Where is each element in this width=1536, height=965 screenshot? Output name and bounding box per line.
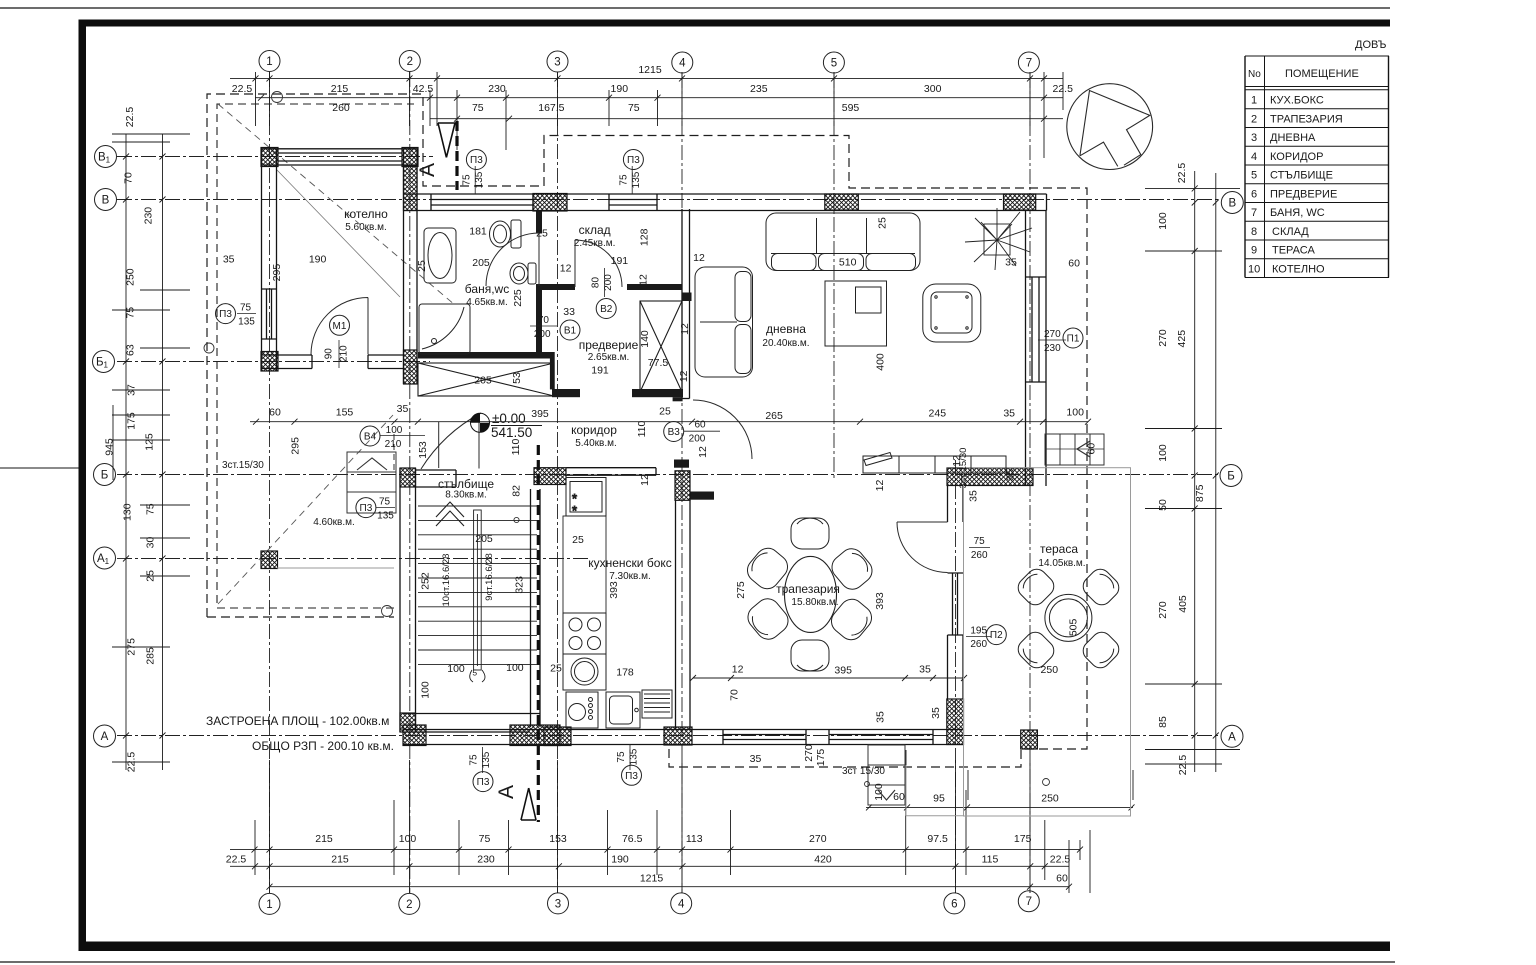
svg-text:60: 60: [694, 420, 706, 431]
wall notch: [673, 397, 683, 401]
svg-text:75: 75: [124, 307, 136, 319]
door M1 boiler room: [311, 298, 368, 355]
living room east window: [1026, 277, 1047, 382]
svg-text:9: 9: [1251, 245, 1257, 257]
svg-text:53: 53: [511, 372, 523, 384]
svg-text:90: 90: [324, 348, 335, 360]
svg-text:ОБЩО РЗП - 200.10 кв.м.: ОБЩО РЗП - 200.10 кв.м.: [252, 739, 394, 753]
svg-text:215: 215: [331, 83, 349, 95]
boiler room bottom wall with M1 opening: [261, 355, 404, 369]
svg-text:395: 395: [834, 665, 852, 677]
svg-text:210: 210: [338, 345, 349, 362]
svg-text:425: 425: [1176, 330, 1188, 348]
svg-text:22.5: 22.5: [124, 107, 136, 128]
svg-text:коридор: коридор: [571, 423, 617, 437]
svg-text:12: 12: [679, 323, 691, 335]
svg-text:ТРАПЕЗАРИЯ: ТРАПЕЗАРИЯ: [1270, 113, 1343, 125]
svg-text:35: 35: [750, 753, 762, 765]
south wall window 1: [723, 730, 806, 745]
svg-text:склад: склад: [579, 223, 611, 237]
svg-text:270: 270: [1157, 329, 1169, 347]
svg-text:35: 35: [1003, 408, 1015, 420]
svg-text:1: 1: [266, 899, 272, 911]
svg-text:270: 270: [803, 744, 815, 762]
svg-text:191: 191: [611, 255, 629, 267]
svg-text:КОРИДОР: КОРИДОР: [1270, 151, 1323, 163]
boiler room left wall: [262, 149, 277, 371]
svg-text:95: 95: [933, 793, 945, 805]
toilet top: [490, 220, 522, 248]
svg-text:22.5: 22.5: [1176, 163, 1188, 184]
svg-text:33: 33: [563, 306, 575, 318]
svg-text:2.45кв.м.: 2.45кв.м.: [574, 238, 616, 249]
svg-text:250: 250: [1041, 664, 1059, 676]
svg-text:кухненски бокс: кухненски бокс: [588, 556, 672, 570]
svg-text:ПОМЕЩЕНИЕ: ПОМЕЩЕНИЕ: [1285, 68, 1359, 80]
svg-text:4: 4: [678, 898, 685, 910]
svg-text:1: 1: [1251, 95, 1257, 107]
south wall faces: [403, 730, 964, 745]
svg-text:5: 5: [831, 58, 837, 70]
left dimension chain: [112, 134, 190, 770]
svg-text:ЗАСТРОЕНА ПЛОЩ - 102.00кв.м: ЗАСТРОЕНА ПЛОЩ - 102.00кв.м: [206, 714, 389, 728]
svg-text:П3: П3: [627, 155, 640, 166]
bath east partition lower: [536, 286, 542, 353]
svg-text:60: 60: [1068, 258, 1080, 270]
svg-text:А: А: [1228, 731, 1236, 743]
living sofa long: [766, 213, 920, 271]
svg-text:205: 205: [474, 375, 492, 387]
svg-text:В: В: [102, 195, 110, 207]
svg-text:12: 12: [693, 252, 705, 264]
svg-text:дневна: дневна: [766, 322, 806, 336]
svg-text:5.60кв.м.: 5.60кв.м.: [345, 222, 387, 233]
door arcs: [311, 233, 948, 573]
svg-text:5.40кв.м.: 5.40кв.м.: [575, 438, 617, 449]
exterior steps S: [868, 745, 905, 805]
svg-text:12: 12: [732, 664, 744, 676]
svg-text:60: 60: [1056, 873, 1068, 885]
svg-text:75: 75: [479, 833, 491, 845]
svg-text:35: 35: [1005, 469, 1017, 481]
svg-text:ТЕРАСА: ТЕРАСА: [1272, 245, 1315, 257]
svg-text:2.65кв.м.: 2.65кв.м.: [588, 352, 630, 363]
svg-text:230: 230: [477, 854, 495, 866]
svg-text:97.5: 97.5: [927, 833, 948, 845]
svg-text:70: 70: [538, 315, 550, 326]
svg-text:А: А: [101, 731, 109, 743]
svg-text:75: 75: [628, 102, 640, 114]
svg-text:В1: В1: [98, 152, 111, 165]
svg-text:420: 420: [814, 854, 832, 866]
svg-text:75: 75: [379, 497, 391, 508]
hall/living wall caps: [682, 398, 690, 400]
svg-text:П3: П3: [360, 503, 373, 514]
hall closet with X: [418, 363, 554, 396]
svg-text:баня,wc: баня,wc: [465, 282, 509, 296]
svg-text:12: 12: [637, 274, 649, 286]
terrace chairs: [1014, 565, 1123, 672]
interior dimension line row (y=421.7): [250, 419, 1091, 474]
kitchen cabinet with circle: [563, 654, 606, 690]
kitchen fridge: [566, 478, 606, 519]
level annotation: [491, 425, 542, 427]
svg-text:153: 153: [417, 441, 429, 459]
svg-text:80: 80: [591, 277, 602, 289]
door storage: [575, 240, 622, 287]
svg-text:76.5: 76.5: [622, 833, 643, 845]
svg-text:252: 252: [420, 572, 432, 590]
svg-text:35: 35: [919, 664, 931, 676]
dining table oval: [785, 556, 837, 632]
svg-text:В4: В4: [364, 432, 377, 443]
svg-text:100: 100: [1157, 212, 1169, 230]
svg-text:БАНЯ, WC: БАНЯ, WC: [1270, 207, 1325, 219]
svg-text:5: 5: [472, 668, 477, 678]
svg-text:875: 875: [1194, 484, 1206, 502]
svg-text:35: 35: [875, 711, 887, 723]
svg-text:35: 35: [967, 490, 979, 502]
axis bubbles: [93, 51, 1244, 915]
left dimension texts (rotated): [104, 107, 157, 773]
svg-text:250: 250: [124, 268, 136, 286]
top dimension chain lines: [230, 72, 1063, 158]
svg-text:275: 275: [735, 581, 747, 599]
plant: [965, 208, 1032, 270]
svg-text:100: 100: [1157, 444, 1169, 462]
small tick left edge: [0, 467, 79, 469]
axis bubble labels: [96, 56, 1236, 911]
svg-text:265: 265: [765, 410, 783, 422]
svg-text:3ст 15/30: 3ст 15/30: [958, 448, 969, 489]
north wall window 2 mid lines: [609, 194, 657, 211]
svg-text:КУХ.БОКС: КУХ.БОКС: [1270, 95, 1324, 107]
svg-text:100: 100: [386, 425, 403, 436]
grid axis centerlines: [117, 72, 1221, 893]
svg-text:15.80кв.м.: 15.80кв.м.: [791, 597, 838, 608]
stair treads: [418, 502, 537, 682]
stair center rail: [474, 510, 482, 670]
svg-text:178: 178: [616, 667, 634, 679]
frame thick left bar: [79, 20, 87, 952]
svg-text:300: 300: [924, 83, 942, 95]
storage/living west wall double line: [682, 209, 690, 399]
svg-text:22.5: 22.5: [232, 83, 253, 95]
bath east partition upper: [536, 211, 542, 234]
svg-text:3: 3: [554, 57, 560, 69]
svg-text:260: 260: [970, 639, 987, 650]
fraction labels: [238, 171, 1061, 768]
svg-text:предверие: предверие: [579, 338, 639, 352]
tv bench: [863, 453, 1006, 474]
svg-text:113: 113: [686, 833, 703, 845]
section cut line A (top): [438, 121, 457, 190]
vestibule west wall lower: [550, 352, 555, 389]
right dimension texts (rotated): [1157, 163, 1206, 776]
svg-text:В: В: [1228, 198, 1236, 210]
svg-text:4.60кв.м.: 4.60кв.м.: [313, 517, 355, 528]
north arrow circle: [1067, 84, 1153, 170]
entry steps west (3 steps): [347, 452, 396, 513]
svg-text:25: 25: [416, 260, 428, 272]
svg-text:100: 100: [1066, 407, 1084, 419]
svg-text:82: 82: [511, 485, 523, 497]
bathtub: [424, 228, 456, 283]
svg-text:8.30кв.м.: 8.30кв.м.: [445, 490, 487, 501]
svg-text:50: 50: [1157, 499, 1169, 511]
svg-text:4: 4: [679, 58, 686, 70]
svg-text:175: 175: [126, 412, 138, 430]
living sofa small: [695, 267, 753, 377]
svg-text:541.50: 541.50: [491, 425, 532, 440]
dish dryer hatch: [642, 690, 672, 718]
frame thick top bar: [79, 20, 1391, 27]
small reference circles on dashed outline: [204, 92, 1050, 787]
svg-text:35: 35: [930, 707, 942, 719]
sheet border thin bottom line: [0, 961, 1395, 963]
svg-text:П3: П3: [470, 155, 483, 166]
svg-text:130: 130: [121, 503, 133, 521]
svg-text:35: 35: [397, 403, 409, 415]
svg-text:505: 505: [1068, 618, 1080, 636]
svg-text:22.5: 22.5: [226, 854, 247, 866]
door hall-dining B3: [693, 400, 752, 459]
svg-text:85: 85: [1157, 716, 1169, 728]
svg-text:А: А: [495, 785, 518, 799]
door dining-terrace: [897, 522, 948, 573]
svg-text:трапезария: трапезария: [776, 582, 840, 596]
south wall window 2: [829, 730, 933, 745]
svg-text:±0.00: ±0.00: [492, 411, 526, 426]
svg-text:945: 945: [104, 438, 116, 456]
stair north wall stub: [416, 470, 457, 487]
svg-text:42.5: 42.5: [413, 83, 434, 95]
svg-text:63: 63: [124, 344, 136, 356]
svg-text:7: 7: [1251, 207, 1257, 219]
room legend table top-right: [1245, 56, 1389, 278]
interior dimension line row (y=678): [690, 675, 967, 681]
svg-text:110: 110: [636, 420, 648, 437]
svg-text:2: 2: [407, 56, 413, 68]
top extension verticals: [256, 72, 1064, 158]
svg-text:115: 115: [982, 854, 999, 866]
svg-text:175: 175: [1014, 833, 1032, 845]
hatched columns: [261, 148, 1037, 750]
top dimension texts: [232, 64, 1073, 114]
svg-text:1: 1: [266, 56, 272, 68]
svg-text:175: 175: [815, 749, 827, 767]
svg-text:10ст.16.6/28: 10ст.16.6/28: [441, 554, 452, 607]
roof diagonal dashed lines: [218, 104, 455, 604]
north wall window (bath) mid lines: [431, 194, 533, 211]
svg-text:25: 25: [572, 534, 584, 546]
svg-text:400: 400: [875, 353, 887, 371]
terrace slab outline: [277, 468, 1131, 816]
svg-text:260: 260: [971, 550, 988, 561]
stair walk line hooks: [470, 670, 485, 682]
stair up arrow: [436, 502, 464, 526]
svg-text:405: 405: [1177, 595, 1189, 613]
kitchen sink: [606, 692, 640, 728]
svg-text:В1: В1: [564, 326, 577, 337]
armchair: [923, 284, 981, 342]
terrace table: [1045, 594, 1092, 641]
fraction divider lines: [237, 166, 1066, 773]
svg-text:5: 5: [1251, 170, 1257, 182]
svg-text:210: 210: [385, 439, 402, 450]
kitchen NE corner stub: [690, 492, 714, 500]
svg-text:9ст.16.6/28: 9ст.16.6/28: [484, 553, 495, 601]
svg-text:П3: П3: [219, 309, 232, 320]
svg-text:1215: 1215: [640, 873, 664, 885]
svg-text:295: 295: [271, 264, 283, 282]
svg-text:295: 295: [290, 437, 302, 455]
section cut line A (bottom): [521, 445, 538, 822]
wall stub at closet top: [682, 293, 692, 302]
level mark +-0.00: [471, 413, 490, 432]
svg-text:В3: В3: [668, 427, 681, 438]
svg-text:3ст 15/30: 3ст 15/30: [842, 766, 885, 777]
svg-text:12: 12: [697, 446, 709, 458]
bottom dimension texts: [226, 793, 1071, 885]
svg-text:275: 275: [126, 638, 138, 656]
svg-text:230: 230: [143, 207, 155, 225]
svg-text:No: No: [1248, 69, 1261, 80]
svg-text:100: 100: [873, 783, 885, 801]
svg-text:60: 60: [893, 791, 905, 803]
svg-text:ДНЕВНА: ДНЕВНА: [1270, 132, 1316, 144]
svg-text:12: 12: [639, 474, 651, 486]
top dim ticks: [253, 75, 1048, 121]
thick partitions (filled): [418, 211, 714, 500]
svg-text:ПРЕДВЕРИЕ: ПРЕДВЕРИЕ: [1270, 188, 1337, 200]
svg-text:8: 8: [1251, 226, 1257, 238]
wall stub below B3 door: [674, 460, 689, 468]
svg-text:22.5: 22.5: [1050, 854, 1071, 866]
svg-text:155: 155: [336, 407, 354, 419]
bottom extension verticals: [255, 750, 1133, 893]
svg-text:Б: Б: [1227, 471, 1235, 483]
svg-text:100: 100: [420, 681, 432, 699]
vestibule south wall east: [632, 389, 683, 397]
svg-text:12: 12: [678, 370, 690, 382]
svg-text:6: 6: [1251, 188, 1257, 200]
storage south wall east part: [627, 284, 682, 290]
svg-text:100: 100: [506, 662, 524, 674]
svg-text:75: 75: [144, 503, 156, 515]
light diagonal in boiler room: [277, 170, 400, 297]
boiler room left wall window: [262, 289, 277, 339]
exterior steps NE: [1045, 434, 1104, 465]
svg-text:30: 30: [144, 537, 156, 549]
bath south wall: [418, 352, 554, 359]
dining east wall segments: [948, 486, 964, 700]
svg-text:22.5: 22.5: [1177, 755, 1189, 776]
svg-text:37: 37: [126, 384, 138, 396]
svg-text:70: 70: [123, 172, 135, 184]
svg-text:135: 135: [377, 511, 394, 522]
kitchen north wall: [567, 468, 657, 476]
coffee table: [825, 281, 887, 346]
svg-text:60: 60: [1086, 443, 1098, 455]
svg-text:190: 190: [611, 854, 629, 866]
svg-text:В2: В2: [600, 304, 613, 315]
entry jamb line: [438, 422, 440, 468]
svg-text:ДОВЪ: ДОВЪ: [1355, 39, 1387, 51]
svg-text:75: 75: [618, 174, 629, 186]
svg-text:285: 285: [144, 647, 156, 665]
svg-text:2: 2: [406, 899, 412, 911]
kitchen counter: [563, 516, 606, 613]
svg-text:12: 12: [874, 480, 886, 492]
svg-text:25: 25: [550, 663, 562, 675]
roof overhang dashed outline (outer): [207, 94, 1087, 767]
svg-text:25: 25: [877, 217, 889, 229]
svg-text:75: 75: [616, 751, 627, 763]
roof overhang dashed outline (inner): [217, 104, 414, 608]
svg-text:1215: 1215: [638, 64, 662, 76]
svg-text:100: 100: [399, 833, 417, 845]
svg-text:75: 75: [461, 174, 472, 186]
svg-text:Б1: Б1: [96, 357, 109, 370]
svg-text:270: 270: [1044, 329, 1061, 340]
bottom dim ticks: [252, 804, 1135, 889]
right dimension chain: [1145, 171, 1240, 772]
svg-text:75: 75: [468, 754, 479, 766]
svg-text:100: 100: [447, 663, 465, 675]
svg-text:П3: П3: [625, 771, 638, 782]
bottom dimension chain lines: [230, 750, 1135, 893]
svg-text:7: 7: [1026, 896, 1032, 908]
vestibule south wall west: [552, 389, 580, 397]
svg-text:14.05кв.м.: 14.05кв.м.: [1038, 558, 1085, 569]
svg-text:595: 595: [842, 102, 860, 114]
svg-text:215: 215: [331, 854, 349, 866]
svg-text:25: 25: [144, 570, 156, 582]
svg-text:4: 4: [1251, 151, 1257, 163]
svg-text:75: 75: [974, 536, 986, 547]
svg-text:125: 125: [144, 433, 156, 451]
svg-text:245: 245: [929, 408, 947, 420]
svg-text:215: 215: [315, 833, 333, 845]
svg-text:25: 25: [659, 406, 671, 418]
svg-text:20.40кв.м.: 20.40кв.м.: [762, 338, 809, 349]
living room east wall: [1026, 211, 1047, 487]
dining chairs: [743, 518, 877, 671]
svg-text:190: 190: [611, 83, 629, 95]
svg-text:140: 140: [639, 330, 651, 348]
svg-text:22.5: 22.5: [1052, 83, 1073, 95]
svg-text:77.5: 77.5: [648, 357, 669, 369]
svg-text:35: 35: [1005, 257, 1017, 269]
svg-text:СТЪЛБИЩЕ: СТЪЛБИЩЕ: [1270, 170, 1333, 182]
svg-text:200: 200: [534, 329, 551, 340]
boiler room top wall: [261, 149, 418, 165]
svg-text:205: 205: [472, 257, 490, 269]
table rows 1-10: [1248, 95, 1343, 276]
svg-text:3ст.15/30: 3ст.15/30: [222, 460, 264, 471]
svg-text:котелно: котелно: [344, 207, 388, 221]
shower tray: [419, 304, 470, 354]
svg-text:323: 323: [514, 576, 526, 594]
svg-text:230: 230: [1044, 343, 1061, 354]
svg-text:7: 7: [1026, 58, 1032, 70]
svg-text:12: 12: [560, 263, 572, 275]
svg-text:181: 181: [469, 226, 487, 238]
svg-text:75: 75: [240, 303, 252, 314]
svg-text:190: 190: [309, 254, 327, 266]
svg-text:7.30кв.м.: 7.30кв.м.: [609, 571, 651, 582]
